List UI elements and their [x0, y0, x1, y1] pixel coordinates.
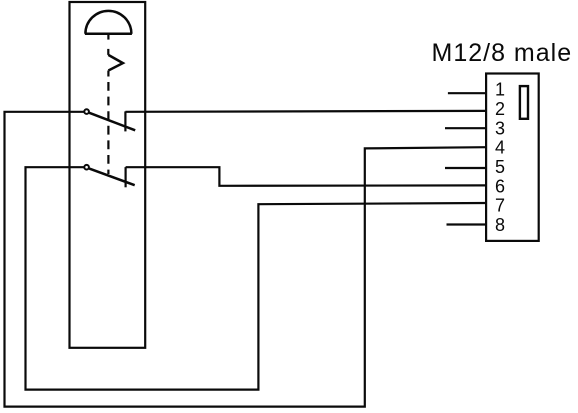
- actuator chevron: [108, 55, 123, 71]
- pin 8 stub: [447, 223, 487, 225]
- dome sensing head: [85, 11, 132, 34]
- switch S1 arm: [89, 113, 135, 131]
- svg-text:M12/8 male: M12/8 male: [432, 39, 573, 67]
- wire S1 pivot to pin 4 outer loop: [5, 112, 487, 407]
- pin 1 stub: [448, 92, 486, 94]
- actuator dash: [107, 49, 109, 55]
- pin 3 stub: [445, 127, 486, 129]
- wire S2 terminal to pin 6: [126, 167, 486, 186]
- dashed actuator line: [107, 82, 109, 174]
- svg-text:1: 1: [495, 80, 505, 100]
- sensor enclosure box: [70, 2, 146, 348]
- svg-text:2: 2: [495, 99, 505, 119]
- wire S1 terminal to pin 2: [125, 110, 486, 113]
- svg-text:6: 6: [495, 176, 505, 196]
- svg-text:8: 8: [495, 215, 505, 235]
- svg-text:4: 4: [495, 138, 505, 158]
- svg-text:5: 5: [495, 157, 505, 177]
- switch S1 fixed terminal: [124, 111, 126, 131]
- switch S2 fixed terminal: [124, 167, 126, 187]
- connector M12/8 body: [486, 74, 539, 241]
- connector key slot: [520, 86, 528, 119]
- svg-text:7: 7: [495, 196, 505, 216]
- switch S2 arm: [89, 169, 134, 186]
- switch S1 pivot contact: [84, 109, 89, 114]
- switch S2 pivot contact: [84, 165, 89, 170]
- pin 5 stub: [445, 167, 486, 169]
- actuator stub below dome: [107, 34, 109, 40]
- svg-text:3: 3: [495, 118, 505, 138]
- wire S2 pivot to pin 7 loop: [26, 167, 487, 389]
- actuator dash: [107, 71, 109, 77]
